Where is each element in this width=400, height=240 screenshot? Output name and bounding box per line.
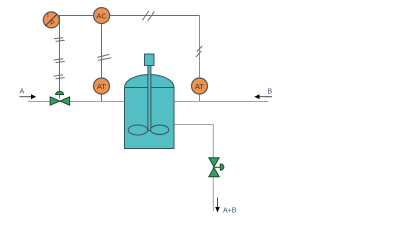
signal slashes on top line: [142, 11, 154, 21]
signal slashes group 1 on valve line: [54, 38, 65, 42]
pipe: feed line A: [28, 101, 125, 103]
svg-text:AT: AT: [97, 82, 106, 91]
pipe: feed line B: [174, 101, 269, 103]
wire: left column signal line AC to AT to pipe A: [101, 16, 103, 102]
wire: signal line from I/P down to valve actuator: [59, 16, 61, 99]
signal slashes on right vertical line: [196, 46, 202, 57]
instrument I/P converter: [43, 12, 59, 28]
instrument AC analysis controller: [94, 8, 110, 24]
control valve V1 body: [50, 97, 69, 105]
label A+B with flow arrow: [215, 198, 237, 215]
svg-text:P: P: [50, 20, 54, 27]
signal slashes group 3 on valve line: [54, 75, 65, 79]
pipe: outlet line from vessel to drain valve: [174, 125, 213, 212]
svg-text:A+B: A+B: [223, 207, 237, 214]
impeller blade left: [128, 125, 147, 135]
svg-text:A: A: [20, 88, 25, 95]
label A with flow arrow: [20, 88, 37, 99]
svg-text:AC: AC: [96, 11, 107, 20]
drain valve V2 body: [209, 158, 219, 177]
svg-text:I: I: [47, 13, 49, 20]
agitator motor box M1: [145, 54, 155, 66]
instrument AT analysis transmitter right: [192, 78, 208, 94]
control valve V1 actuator dome: [56, 91, 64, 94]
signal slashes on left column line: [97, 54, 111, 60]
svg-text:B: B: [268, 88, 273, 95]
drain valve V2 actuator dome: [220, 164, 224, 170]
reactor vessel R1: [125, 75, 175, 149]
signal slashes group 2 on valve line: [54, 59, 65, 63]
impeller blade right: [151, 125, 169, 134]
instrument AT analysis transmitter left: [94, 78, 110, 94]
drain valve V2 handle stem: [214, 166, 220, 168]
agitator shaft: [148, 66, 151, 131]
svg-text:AT: AT: [195, 82, 204, 91]
wire: top signal line from I/P to right corner: [51, 15, 199, 17]
label B with flow arrow: [254, 88, 272, 99]
wire: right vertical signal line down to AT: [199, 16, 201, 102]
